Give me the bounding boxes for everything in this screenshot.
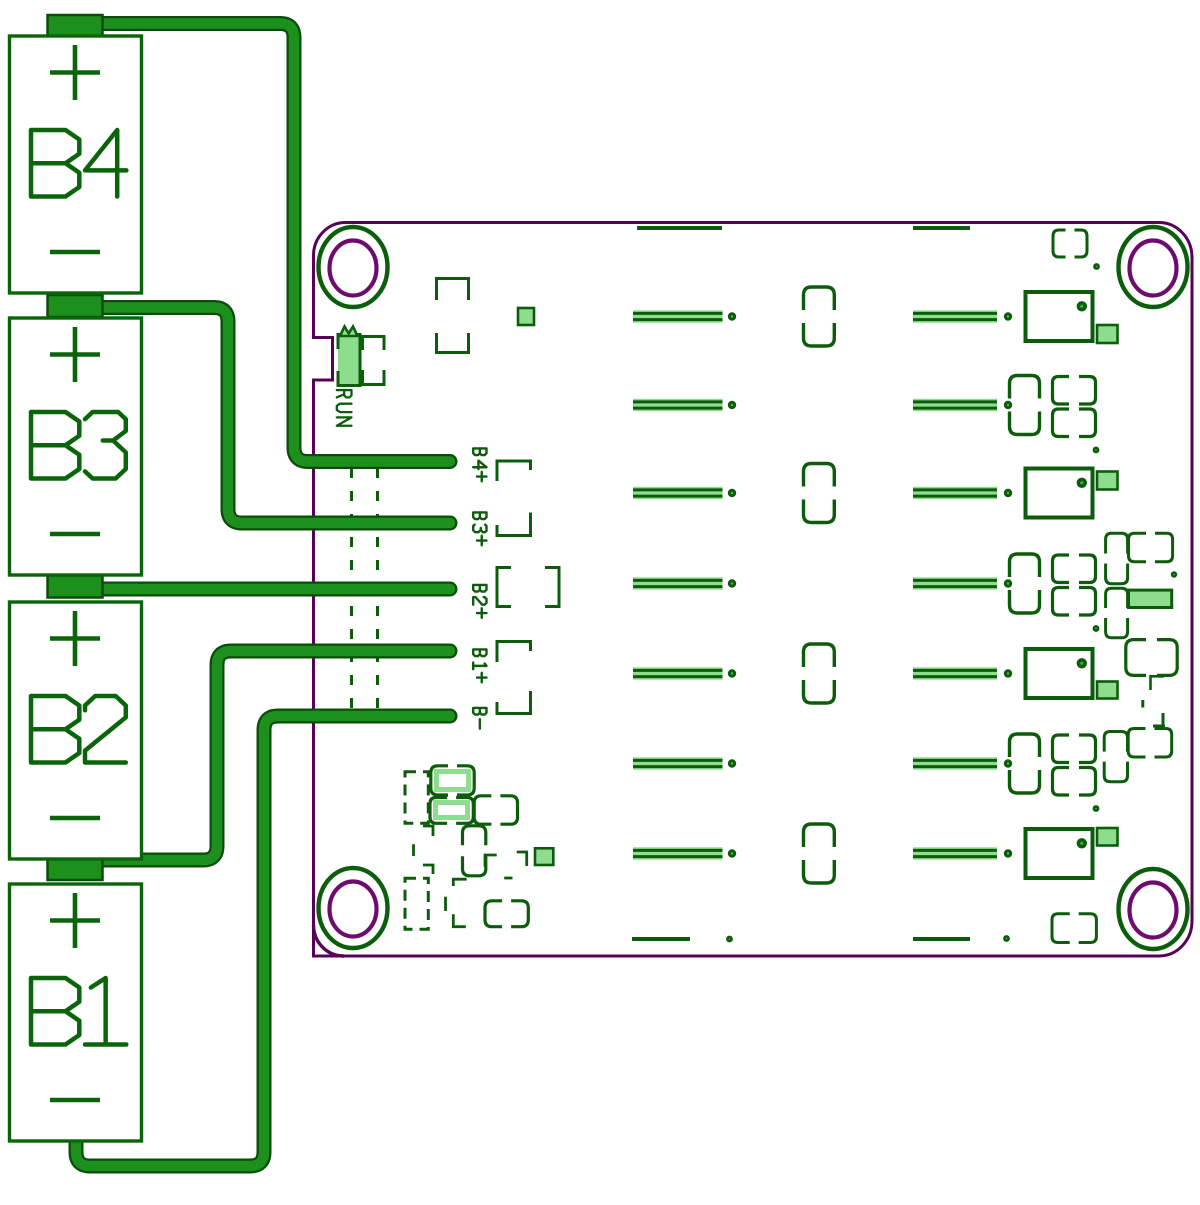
resistor RR1 (filled outline) bbox=[1129, 590, 1172, 607]
wire B2+ from B3-/B2+ junction bbox=[100, 582, 450, 597]
wire B- from battery B1 negative bbox=[76, 716, 450, 1166]
via dot below RD2 bbox=[1093, 625, 1100, 632]
vertical dash P12 bbox=[444, 897, 447, 911]
pad square of Q1 bbox=[1097, 325, 1118, 343]
via dot below RD3 bbox=[1093, 805, 1100, 812]
dash mark 1 bbox=[1141, 700, 1144, 708]
dashed connector outline line left bbox=[350, 468, 353, 714]
via dot row8 left bbox=[726, 936, 733, 943]
via dot row R1 right bbox=[1004, 312, 1012, 320]
battery B3 bbox=[10, 318, 142, 575]
test pad square TP1 bbox=[518, 308, 534, 325]
capacitor C3 middle column bbox=[804, 644, 835, 703]
battery B1 bbox=[10, 884, 142, 1141]
resistor row R3b right bbox=[913, 667, 997, 679]
capacitor C1 middle column bbox=[804, 287, 835, 346]
resistor row D1b right bbox=[913, 399, 997, 411]
pad square of Q4 bbox=[1097, 828, 1118, 846]
capacitor CR1 bbox=[1106, 533, 1128, 584]
pad label B3+ bbox=[473, 512, 486, 545]
capacitor C2 middle column bbox=[804, 464, 835, 523]
wire B1+ from B2-/B1+ junction bbox=[100, 651, 450, 860]
PCB board outline bbox=[314, 223, 1193, 957]
via dot row R1 left bbox=[728, 312, 736, 320]
pad pair U-top bbox=[437, 279, 469, 301]
dashed connector outline line right bbox=[376, 468, 379, 714]
battery tab B2-/B1+ junction bbox=[48, 858, 103, 880]
mounting hole top-left bbox=[319, 227, 388, 307]
IC U2 dashed outline bbox=[405, 878, 428, 929]
pad B3+ bbox=[497, 513, 531, 536]
resistor row R1b right bbox=[913, 310, 997, 322]
wire B4+ from battery B4 positive bbox=[70, 24, 450, 462]
mounting hole bottom-left bbox=[319, 868, 388, 948]
dashed corner mark right bbox=[1151, 676, 1165, 690]
via dot row D3 left bbox=[728, 759, 736, 767]
RUN jumper shunt zigzag top bbox=[340, 327, 358, 337]
via dot row R3 left bbox=[728, 669, 736, 677]
battery tab top of B4 bbox=[48, 15, 103, 37]
vertical dash P6 bbox=[412, 844, 415, 856]
resistor pair P2 bbox=[433, 800, 470, 820]
corner marks P7 bbox=[485, 855, 497, 867]
via dot top-right bbox=[1093, 263, 1100, 270]
resistor pair RD3 bottom bbox=[1053, 768, 1096, 796]
dash mark T bbox=[1153, 713, 1165, 726]
pad B- bbox=[497, 691, 531, 714]
silkscreen line row0 left bbox=[637, 226, 722, 230]
pad square of Q2 bbox=[1097, 472, 1118, 490]
resistor row R4a left bbox=[633, 847, 723, 859]
inductor LR1 bbox=[1126, 640, 1177, 676]
resistor row D3b right bbox=[913, 757, 997, 769]
battery B2 bbox=[10, 602, 142, 859]
resistor row R2b right bbox=[913, 487, 997, 499]
silkscreen line row0 right bbox=[913, 226, 970, 230]
via dot row D1 right bbox=[1004, 401, 1012, 409]
pad B2+ left half bbox=[497, 568, 511, 607]
transistor Q3 body bbox=[1026, 649, 1093, 698]
via dot below RD1 bbox=[1093, 447, 1100, 454]
resistor pair CR5 bbox=[1128, 729, 1172, 758]
via dot row D2 right bbox=[1004, 579, 1012, 587]
silkscreen line row8 right bbox=[913, 937, 970, 941]
capacitor CD1 bbox=[1010, 376, 1040, 435]
resistor pair P14 bbox=[485, 901, 528, 927]
capacitor P5 bbox=[463, 826, 486, 876]
pad label B4+ bbox=[473, 448, 486, 481]
transistor Q1 body bbox=[1026, 292, 1093, 341]
resistor pair RD2 bottom bbox=[1053, 588, 1096, 616]
battery tab B3-/B2+ junction bbox=[48, 576, 103, 598]
via dot row D3 right bbox=[1004, 759, 1012, 767]
via dot row R4 right bbox=[1004, 849, 1012, 857]
RUN text bbox=[337, 390, 352, 426]
battery B4 bbox=[10, 36, 142, 293]
capacitor CD3 bbox=[1010, 734, 1040, 793]
capacitor C-bottom-right bbox=[1052, 914, 1096, 943]
pad label B2+ bbox=[473, 585, 486, 618]
dash P10 bbox=[504, 877, 512, 880]
resistor row R3a left bbox=[633, 667, 723, 679]
capacitor C4 middle column bbox=[804, 824, 835, 883]
pad square of Q3 bbox=[1097, 682, 1118, 699]
test pad square P8 bbox=[535, 848, 553, 865]
resistor pair RD1 top bbox=[1053, 377, 1096, 405]
wire B3+ from B4-/B3+ junction bbox=[100, 308, 450, 524]
resistor row D2b right bbox=[913, 577, 997, 589]
resistor pair P1 bbox=[434, 769, 471, 792]
via dot row R4 left bbox=[728, 849, 736, 857]
via dot row R3 right bbox=[1004, 669, 1012, 677]
pad pair U-bottom bbox=[437, 333, 469, 353]
resistor pair CR2 bbox=[1129, 533, 1173, 562]
resistor pair RD3 top bbox=[1053, 735, 1096, 763]
via dot row D2 left bbox=[728, 579, 736, 587]
corner mark P13 bbox=[453, 914, 466, 927]
pad label B- bbox=[473, 708, 486, 729]
transistor Q2 body bbox=[1026, 469, 1093, 518]
resistor pair P3 bbox=[474, 796, 517, 824]
pad label B1+ bbox=[473, 649, 486, 682]
corner mark P4 bbox=[423, 826, 433, 836]
mounting hole top-right bbox=[1119, 227, 1188, 307]
via dot row R2 right bbox=[1004, 489, 1012, 497]
via dot right cluster 1 bbox=[1171, 571, 1177, 577]
resistor row D3a left bbox=[633, 757, 723, 769]
resistor pair RD1 bottom bbox=[1053, 409, 1096, 437]
RUN jumper pad 2 (open) bbox=[363, 337, 385, 385]
via dot row D1 left bbox=[728, 401, 736, 409]
via dot row R2 left bbox=[728, 489, 736, 497]
capacitor CR3 bbox=[1106, 588, 1128, 638]
pad B4+ bbox=[497, 461, 531, 481]
resistor row R2a left bbox=[633, 487, 723, 499]
mounting hole bottom-right bbox=[1119, 869, 1188, 949]
battery tab B4-/B3+ junction bbox=[48, 295, 103, 317]
resistor row D2a left bbox=[633, 577, 723, 589]
transistor Q4 body bbox=[1026, 829, 1093, 878]
capacitor CR4 bbox=[1104, 732, 1127, 782]
silkscreen line row8 left bbox=[632, 937, 690, 941]
pad B1+ bbox=[497, 642, 531, 663]
pad B2+ right half bbox=[545, 568, 559, 607]
resistor row R4b right bbox=[913, 847, 997, 859]
resistor pair RD2 top bbox=[1053, 555, 1096, 583]
resistor row R1a left bbox=[633, 310, 723, 322]
RUN jumper shunt pad (filled) bbox=[338, 335, 360, 386]
capacitor CD2 bbox=[1010, 554, 1040, 613]
resistor row D1a left bbox=[633, 399, 723, 411]
board corner fillet bottom-left bbox=[314, 925, 345, 956]
corner mark P9 bbox=[423, 865, 433, 874]
corner mark P11 bbox=[453, 879, 466, 886]
IC U1 dashed outline bbox=[405, 772, 428, 824]
capacitor C-top-right bbox=[1053, 230, 1087, 257]
via dot row8 right bbox=[1003, 935, 1010, 942]
